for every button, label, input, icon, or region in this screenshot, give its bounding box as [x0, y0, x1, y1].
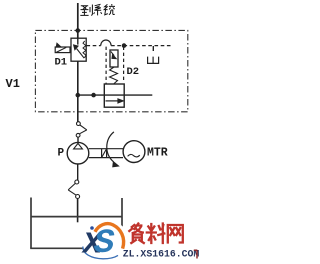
svg-text:S: S [94, 225, 115, 263]
svg-text:V1: V1 [6, 77, 20, 91]
svg-text:P: P [58, 148, 65, 160]
svg-text:MTR: MTR [147, 147, 168, 160]
svg-text:D2: D2 [127, 66, 140, 78]
svg-text:ZL.XS1616.COM: ZL.XS1616.COM [123, 248, 200, 259]
svg-text:D1: D1 [55, 57, 68, 69]
